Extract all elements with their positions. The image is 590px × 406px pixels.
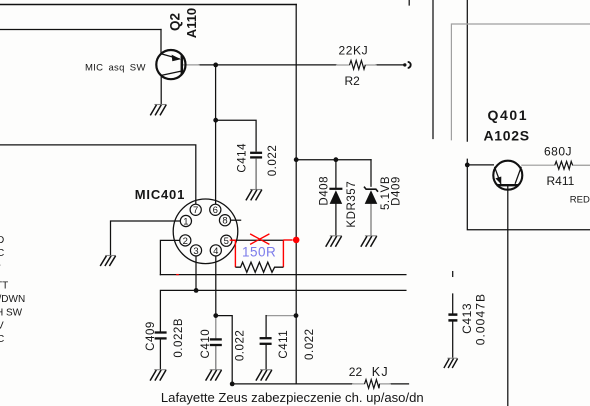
node C414 branch bbox=[213, 118, 218, 123]
wire R411 right bbox=[573, 164, 590, 166]
pin 4 bbox=[210, 245, 221, 257]
svg-text:22: 22 bbox=[349, 365, 363, 379]
wire D409 top lead bbox=[370, 160, 372, 187]
svg-text:C413: C413 bbox=[460, 303, 474, 334]
ground (pin1) bbox=[100, 256, 116, 267]
svg-text:Lafayette Zeus zabezpieczenie: Lafayette Zeus zabezpieczenie ch. up/aso… bbox=[161, 390, 424, 405]
pin 1 bbox=[180, 215, 191, 227]
resistor R2 bbox=[350, 61, 366, 70]
wire D409 to ground bbox=[370, 204, 372, 236]
wire main vertical net V296 bbox=[295, 5, 297, 384]
wire bottom bus right part bbox=[390, 383, 408, 385]
wire R2 right stub bbox=[365, 64, 376, 66]
capacitor C413 bbox=[448, 315, 457, 321]
svg-text:MIC asq SW: MIC asq SW bbox=[85, 62, 146, 73]
wire right vertical V467 bbox=[466, 0, 468, 141]
wire pin3 to bus2 bbox=[195, 256, 197, 291]
svg-text:Q401: Q401 bbox=[488, 107, 529, 123]
wire Q2 base to R2 bbox=[199, 64, 337, 66]
svg-text:/DWN: /DWN bbox=[0, 294, 25, 305]
svg-text:C414: C414 bbox=[236, 143, 248, 173]
wire Q401 collector lead down bbox=[507, 186, 509, 406]
wire Q2 collector to ground bbox=[160, 76, 162, 105]
capacitor C411 bbox=[260, 338, 272, 344]
node C411 branch bbox=[294, 313, 299, 318]
node bottom bus bbox=[230, 382, 235, 387]
svg-text:150R: 150R bbox=[242, 244, 276, 259]
resistor 22KJ bottom bbox=[365, 380, 380, 389]
wire C413 top lead bbox=[452, 294, 454, 313]
wire C409 to ground bbox=[159, 340, 161, 370]
annotation: red X over pin5 wire bbox=[250, 234, 269, 245]
svg-text:0.022: 0.022 bbox=[267, 145, 279, 177]
ground (Q2) bbox=[150, 105, 166, 116]
wire C411 to ground bbox=[265, 345, 267, 370]
svg-text:C410: C410 bbox=[200, 329, 212, 359]
svg-text:KJ: KJ bbox=[372, 365, 389, 379]
wire to bottom bus bbox=[216, 316, 232, 384]
svg-text:Q2: Q2 bbox=[167, 13, 182, 31]
svg-text:A102S: A102S bbox=[484, 128, 530, 144]
wire top tick bbox=[408, 0, 410, 5]
svg-text:C: C bbox=[0, 248, 4, 259]
svg-text:C: C bbox=[0, 334, 4, 345]
wire right vertical V433 bbox=[432, 0, 434, 139]
svg-text:D408: D408 bbox=[319, 176, 331, 206]
svg-text:D: D bbox=[0, 235, 4, 246]
wire C410 lead bbox=[215, 316, 217, 339]
svg-text:22KJ: 22KJ bbox=[339, 44, 369, 58]
gray shield line top right bbox=[451, 24, 590, 140]
pin 3 bbox=[190, 245, 201, 257]
resistor 150R (added) bbox=[235, 262, 283, 272]
svg-text:C411: C411 bbox=[278, 330, 290, 359]
svg-text:A110: A110 bbox=[184, 8, 199, 38]
ground (C413) bbox=[444, 358, 458, 368]
wire to C414 bbox=[216, 120, 256, 151]
pin 5 bbox=[221, 235, 232, 247]
terminal of R2 bbox=[403, 62, 411, 68]
transistor Q401 bbox=[493, 161, 522, 190]
svg-text:680J: 680J bbox=[544, 144, 572, 158]
svg-text:1: 1 bbox=[183, 216, 188, 227]
left edge cut labels bbox=[0, 235, 25, 345]
svg-text:2: 2 bbox=[183, 236, 188, 247]
wire pin5 to 150R bypass bbox=[232, 239, 284, 241]
svg-text:D409: D409 bbox=[391, 176, 403, 206]
wire Q2 emitter lead bbox=[160, 30, 162, 55]
capacitor C414 bbox=[250, 153, 262, 158]
svg-text:R2: R2 bbox=[345, 74, 361, 88]
wire pin1 to ground bbox=[111, 221, 181, 255]
ground (C411) bbox=[256, 370, 272, 381]
wire bus2 and C409 drop bbox=[160, 290, 406, 331]
diode D408 bbox=[329, 189, 342, 204]
wire pin4 down bbox=[215, 256, 217, 316]
wire bottom bus left part bbox=[232, 383, 352, 385]
node pin3 bus2 bbox=[194, 288, 199, 293]
svg-text:0.0047B: 0.0047B bbox=[473, 293, 487, 345]
pin 7 bbox=[190, 204, 201, 216]
svg-text:TT: TT bbox=[0, 281, 8, 292]
wire C413 tick bbox=[452, 272, 454, 277]
wire Q2 base stub bbox=[183, 64, 199, 66]
node Q2 base junction bbox=[213, 63, 218, 68]
svg-text:C409: C409 bbox=[145, 321, 157, 351]
svg-text:0.022B: 0.022B bbox=[173, 318, 185, 358]
svg-text:R411: R411 bbox=[547, 174, 575, 188]
connector MIC401 socket bbox=[173, 199, 238, 264]
wire 22KJ bottom stubs bbox=[353, 383, 391, 385]
node C410 branch bbox=[213, 313, 218, 318]
node Q401 base bbox=[465, 163, 470, 168]
ground (D409) bbox=[361, 236, 377, 247]
wire D408 to ground bbox=[335, 204, 337, 236]
wire pin8 stub bbox=[231, 219, 241, 221]
wire Q401 emitter wire bbox=[467, 164, 493, 166]
resistor R411 bbox=[555, 161, 573, 169]
wire left bus to pin7 bbox=[0, 145, 196, 204]
wire C414 to ground bbox=[255, 159, 257, 189]
wire C413 to ground bbox=[452, 322, 454, 357]
wire Q401 collector stub bbox=[522, 164, 555, 166]
wire top bus H1 bbox=[0, 4, 296, 6]
svg-text:MIC401: MIC401 bbox=[135, 187, 185, 202]
svg-text:0.022: 0.022 bbox=[235, 330, 247, 362]
wire pin2 to bus1 bbox=[160, 240, 179, 274]
annotation: red tick on bus1 bbox=[176, 274, 179, 276]
transistor Q2 bbox=[156, 50, 185, 79]
wire C411 stub bbox=[266, 315, 296, 317]
wire diode branch bbox=[296, 159, 371, 161]
pin 6 bbox=[210, 204, 221, 216]
wire R2 right to terminal bbox=[376, 64, 404, 66]
node diode branch bbox=[294, 157, 299, 162]
node red junction dot bbox=[293, 237, 300, 244]
wire C411 lead bbox=[265, 316, 267, 337]
capacitor C410 bbox=[210, 339, 222, 345]
wire MIC asq SW input bbox=[0, 29, 161, 31]
svg-text:3: 3 bbox=[193, 246, 198, 257]
wire junction drop to pin6 bbox=[215, 65, 217, 204]
svg-text:-: - bbox=[0, 260, 1, 271]
svg-text:5: 5 bbox=[224, 236, 229, 247]
wire D408 top lead bbox=[335, 160, 337, 188]
svg-text:0.022: 0.022 bbox=[304, 328, 316, 360]
svg-text:V: V bbox=[0, 321, 4, 332]
wire R2 left stub bbox=[337, 64, 350, 66]
svg-text:6: 6 bbox=[213, 205, 218, 216]
annotation: red bypass wiring for 150R bbox=[230, 240, 293, 267]
rotated component value labels bbox=[145, 143, 488, 361]
svg-text:7: 7 bbox=[193, 205, 198, 216]
pin 8 bbox=[219, 215, 230, 227]
ground (D408) bbox=[326, 236, 342, 247]
node D408 branch bbox=[334, 157, 339, 162]
zener diode D409 bbox=[364, 187, 378, 204]
ground (C414) bbox=[246, 190, 262, 201]
ground (C409) bbox=[150, 370, 166, 381]
ground (C410) bbox=[206, 370, 222, 381]
wire Q401 base net bbox=[467, 159, 590, 230]
pin 2 bbox=[180, 235, 191, 247]
svg-text:KDR357: KDR357 bbox=[346, 181, 358, 228]
capacitor C409 bbox=[155, 333, 167, 339]
wire bus1 bbox=[160, 274, 406, 276]
svg-text:H SW: H SW bbox=[0, 307, 23, 318]
svg-text:RED: RED bbox=[570, 195, 590, 206]
svg-text:8: 8 bbox=[222, 216, 227, 227]
svg-text:4: 4 bbox=[213, 246, 218, 257]
wire C410 to ground bbox=[215, 346, 217, 370]
